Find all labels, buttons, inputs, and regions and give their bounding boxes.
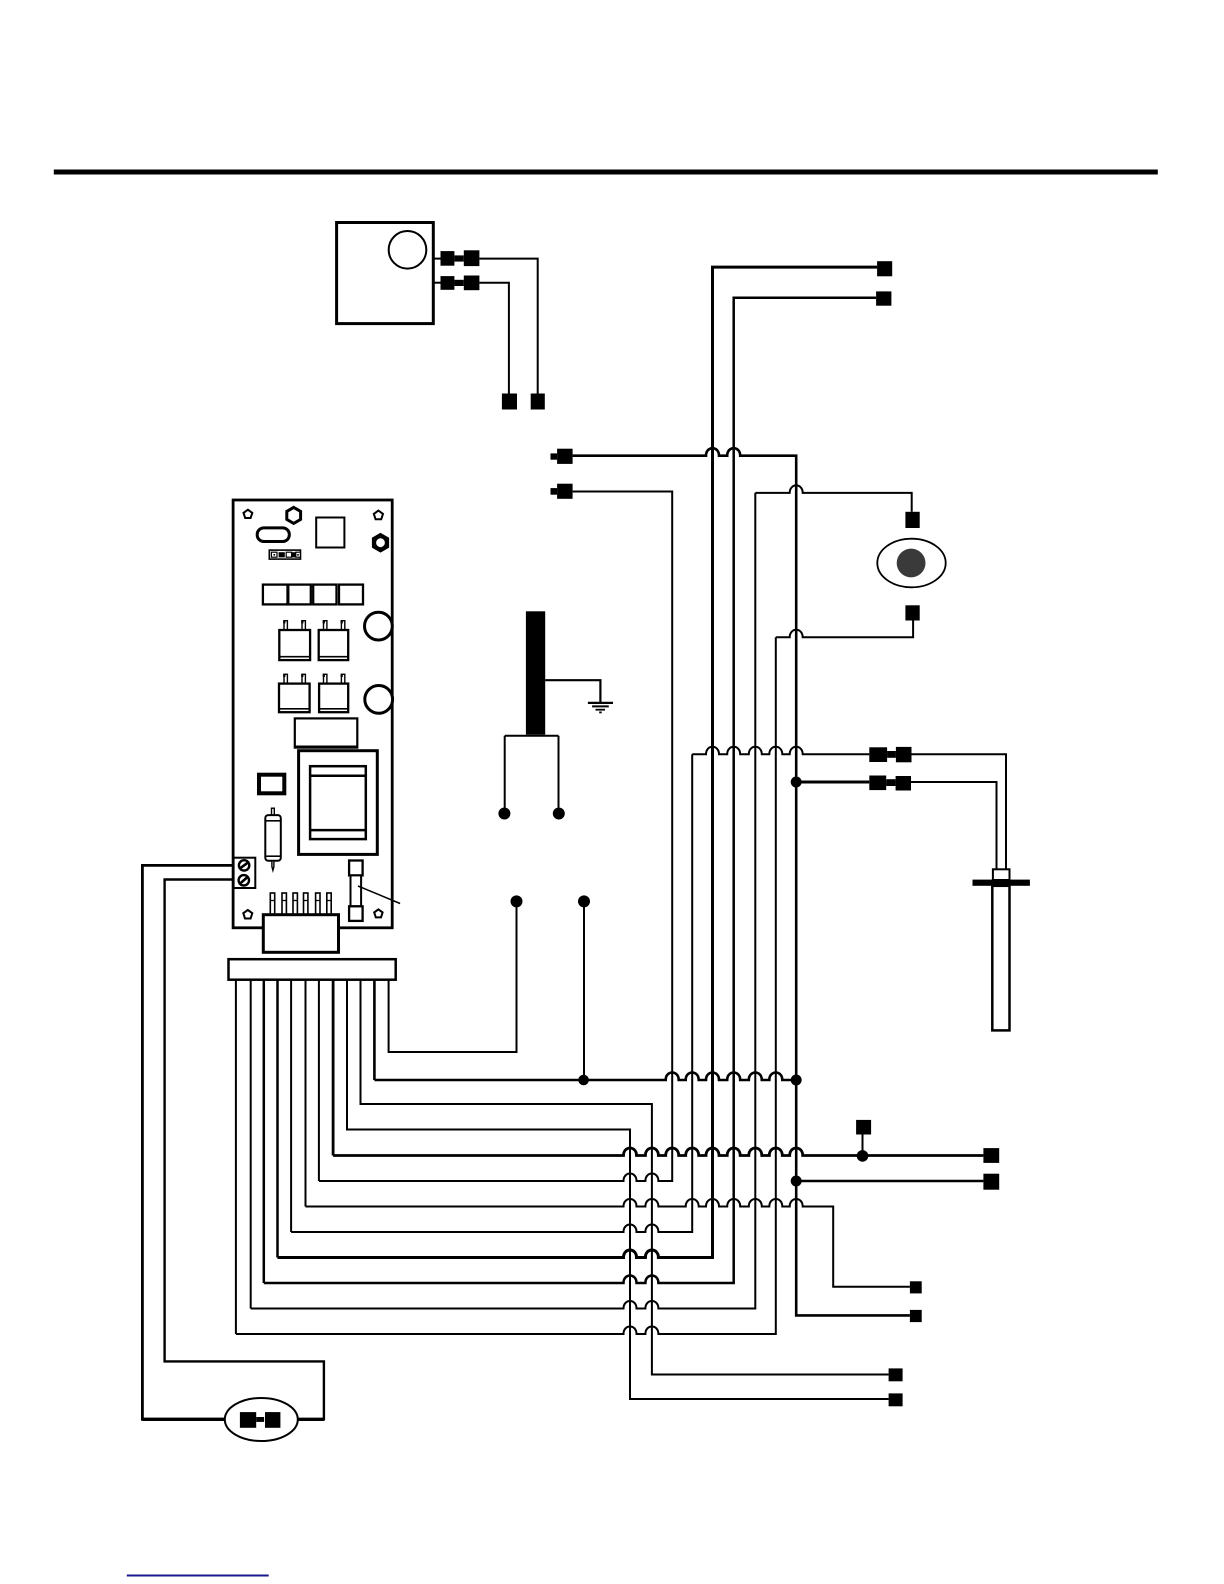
PCB transformer T1 outline xyxy=(299,751,378,855)
wire harness plug pin B down to junction xyxy=(583,901,585,1080)
harness connector strip xyxy=(229,959,396,980)
PCB terminal block TB1 xyxy=(234,858,256,888)
PCB relay K2 xyxy=(319,620,349,660)
connector half J2a xyxy=(441,276,455,290)
PCB mounting hole (top-left) xyxy=(244,510,253,518)
probe mounting flange xyxy=(973,880,1030,886)
wire stub box to connector pair 2 xyxy=(433,282,440,284)
HV transformer core bar xyxy=(526,611,545,734)
footer link underline xyxy=(127,1575,269,1577)
terminal lug (right) xyxy=(531,394,545,410)
wire PCB pin7 to connector C2 xyxy=(319,492,672,1182)
igniter connector half I1b xyxy=(896,747,912,762)
wire igniter row 2 to probe xyxy=(911,782,997,869)
connector half J2b xyxy=(464,276,480,291)
connector half J1b xyxy=(464,250,480,266)
fuse pointer line xyxy=(358,886,400,904)
terminal lug TR2 xyxy=(876,291,891,305)
wire PCB pin6 to lug LR2 xyxy=(306,980,910,1287)
terminal lug bottom 1 xyxy=(889,1393,903,1406)
PCB relay driver square 2 xyxy=(288,585,311,605)
PCB pin header pins xyxy=(270,893,331,915)
PCB mounting hole (top-right) xyxy=(374,511,383,520)
wire PCB pin12 to harness plug pin A xyxy=(389,901,517,1052)
PCB relay driver square 1 xyxy=(263,585,288,605)
connector half J1a xyxy=(441,251,455,266)
lamp terminal lug top xyxy=(905,512,919,528)
PCB nut (top) xyxy=(287,507,301,523)
wire PCB pin4 vertical stub xyxy=(276,980,279,1258)
AC wire L thick segment at plug xyxy=(142,1418,240,1421)
AC plug link xyxy=(256,1417,264,1422)
terminal lug LR2 xyxy=(910,1281,922,1293)
wire PCB pin8 long row to lug MR1 xyxy=(333,980,983,1156)
probe body xyxy=(992,886,1009,1031)
wire stub box to connector pair 1 xyxy=(433,258,440,260)
indicator lamp lens xyxy=(897,549,926,578)
PCB component thick rect xyxy=(259,775,284,794)
PCB mounting hole (bottom-right) xyxy=(374,909,382,917)
probe cap xyxy=(993,869,1010,880)
AC plug blade left xyxy=(240,1412,256,1428)
wire from J1 to terminal below xyxy=(479,259,537,394)
junction dot wire B xyxy=(578,1075,589,1086)
wire from J2 to terminal below xyxy=(479,283,509,394)
harness plug pin B (node) xyxy=(578,895,590,907)
connector link J2 xyxy=(454,280,463,286)
stub wire lug to junction xyxy=(862,1135,864,1156)
lamp terminal lug bottom xyxy=(905,605,919,620)
PCB edge connector shroud xyxy=(263,915,338,953)
PCB relay K3 xyxy=(279,674,310,712)
AC plug blade right xyxy=(265,1412,280,1428)
transformer plug pin A (node) xyxy=(498,808,510,820)
PCB IC U1 xyxy=(316,518,344,548)
AC wire L (terminal block to plug) xyxy=(142,865,240,1419)
HV transformer body outline xyxy=(505,736,559,808)
PCB fuse F1 xyxy=(349,861,363,921)
PCB relay K4 xyxy=(319,674,348,712)
wire PCB pin7 vertical stub xyxy=(318,980,320,1181)
PCB relay K1 xyxy=(279,620,310,660)
terminal lug bottom 2 xyxy=(889,1368,903,1381)
transformer plug pin B (node) xyxy=(553,808,565,820)
wire PCB pin2 up to lamp feed xyxy=(251,493,756,1309)
wire igniter row 1 xyxy=(692,747,869,755)
wire C1 to lower-right lug (node N1 trunk) xyxy=(573,448,910,1315)
PCB mounting hole (bottom-left) xyxy=(243,910,252,919)
connector C1 body xyxy=(557,449,573,464)
stub terminal lug above row xyxy=(856,1120,871,1135)
indicator lamp outline xyxy=(877,539,945,588)
igniter connector half I1a xyxy=(869,747,887,762)
circle detail inside box xyxy=(389,231,427,269)
wire igniter row 2 from trunk xyxy=(796,781,869,784)
PCB crystal (oval) xyxy=(257,528,289,542)
wire lamp return bottom xyxy=(776,621,913,638)
terminal lug TR1 xyxy=(877,261,892,276)
horizontal rule (page divider) xyxy=(54,170,1158,175)
wire PCB pin10 to bottom lug 2 xyxy=(361,980,889,1375)
PCB relay driver square 3 xyxy=(313,585,336,605)
PCB capacitor can C2 (circle) xyxy=(365,686,393,714)
igniter connector half I2b xyxy=(896,776,911,791)
terminal screw 1 xyxy=(239,860,249,870)
PCB relay driver square 4 xyxy=(339,585,363,605)
wire trunk N1 to lug MR2 xyxy=(796,1180,983,1183)
PCB component rect (header) xyxy=(295,718,358,747)
connector C2 body xyxy=(557,484,573,499)
ground wire from core xyxy=(545,680,600,703)
junction dot trunk N1 lower xyxy=(791,1176,802,1187)
wire PCB pin9 to bottom lug 1 xyxy=(347,980,889,1399)
junction dot row pin8 xyxy=(857,1150,869,1162)
connector C2 tab xyxy=(551,488,558,495)
terminal lug (left) xyxy=(502,394,517,410)
AC wire N (terminal block to plug) xyxy=(165,880,324,1420)
terminal lug LR3 xyxy=(910,1310,922,1322)
PCB board outline xyxy=(233,500,392,928)
component box (top-left unit) xyxy=(337,223,434,324)
wire igniter row 1 to probe xyxy=(912,754,1007,869)
terminal lug MR1 xyxy=(983,1148,999,1163)
wire PCB pin1 up to lamp return xyxy=(236,637,776,1334)
wire PCB pin3 to terminal TR2 xyxy=(264,298,876,1283)
wire PCB pin5 up to igniter row xyxy=(291,754,692,1232)
AC wire N thick segment at plug xyxy=(280,1418,324,1421)
AC plug outline xyxy=(225,1398,298,1441)
connector C1 tab xyxy=(551,453,558,459)
PCB nut with hole (right) xyxy=(373,535,387,551)
PCB jumper block xyxy=(269,550,300,559)
wire PCB pin3 vertical stub xyxy=(263,980,266,1283)
igniter connector half I2a xyxy=(869,776,886,791)
wire PCB pin11 along row B to trunk N1 xyxy=(374,980,796,1080)
wire PCB pin4 to terminal TR1 xyxy=(278,267,878,1257)
PCB capacitor can C1 (circle) xyxy=(365,612,393,640)
connector link J1 xyxy=(454,255,463,261)
harness plug pin A (node) xyxy=(511,895,523,907)
terminal lug MR2 xyxy=(983,1174,999,1190)
ground symbol xyxy=(588,703,613,713)
igniter connector link I2 xyxy=(886,779,895,786)
PCB electrolytic capacitor C3 xyxy=(265,808,281,870)
junction dot trunk N1 at row B xyxy=(791,1075,802,1086)
wire lamp feed top xyxy=(755,485,911,511)
PCB transformer T1 core xyxy=(310,766,366,839)
igniter connector link I1 xyxy=(887,751,896,758)
junction dot trunk N1 upper xyxy=(791,777,802,788)
terminal screw 2 xyxy=(239,875,249,885)
